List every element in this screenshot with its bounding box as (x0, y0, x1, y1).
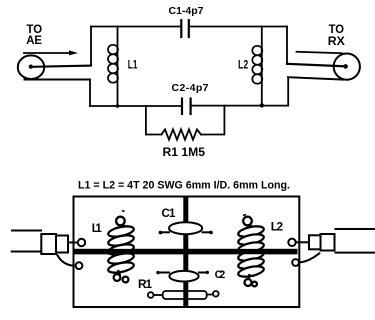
svg-text:C1: C1 (162, 208, 176, 220)
svg-text:L1: L1 (128, 58, 138, 72)
svg-text:RX: RX (328, 34, 346, 48)
svg-text:C1-4p7: C1-4p7 (169, 5, 204, 17)
svg-text:C2-4p7: C2-4p7 (172, 82, 209, 94)
svg-text:L1: L1 (92, 223, 103, 235)
svg-text:R1 1M5: R1 1M5 (163, 146, 206, 159)
svg-text:AE: AE (26, 33, 42, 47)
svg-text:L2: L2 (271, 219, 284, 233)
svg-text:C2: C2 (215, 269, 226, 281)
svg-text:R1: R1 (138, 277, 152, 291)
svg-text:L1 = L2 = 4T 20 SWG 6mm I/D. 6: L1 = L2 = 4T 20 SWG 6mm I/D. 6mm Long. (78, 179, 290, 191)
svg-text:L2: L2 (238, 58, 248, 72)
